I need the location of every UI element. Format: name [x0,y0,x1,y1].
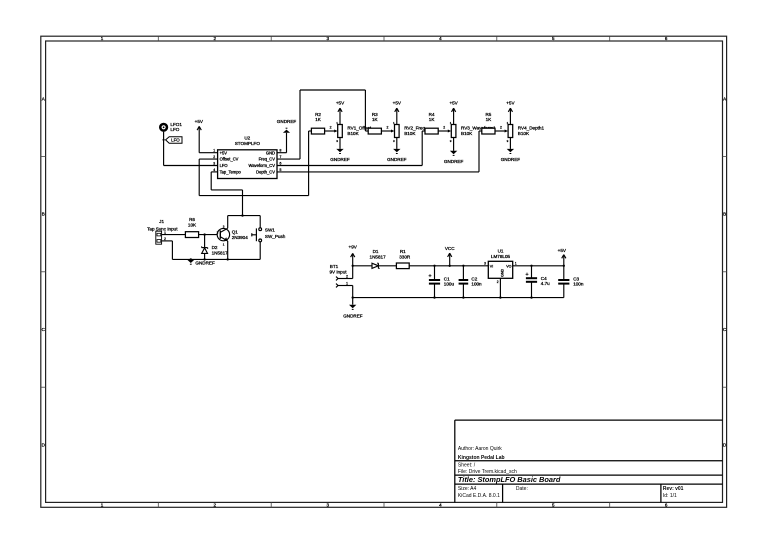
svg-text:GNDREF: GNDREF [343,313,363,318]
ground GNDREF (above U2, inverted) [277,119,297,133]
connector BT1 9V Input [329,264,348,287]
svg-text:STOMPLFO: STOMPLFO [235,141,261,146]
wire tap ground rail [172,258,260,260]
node junction gnd rail left [352,296,354,298]
svg-text:B10K: B10K [461,131,473,136]
svg-text:3: 3 [213,161,215,165]
power +5V (output) [558,248,567,266]
diode D1 1N5817 [370,249,387,268]
svg-text:+: + [525,272,528,278]
svg-text:D: D [42,443,46,448]
ground GNDREF (RV4) [501,149,521,162]
power +5V (U2) [195,119,204,153]
svg-text:Author: Aaron Quirk: Author: Aaron Quirk [458,446,502,452]
LED testpoint LFO1 [159,122,182,132]
svg-text:2: 2 [213,155,215,159]
svg-text:6: 6 [279,161,281,165]
frame row ticks right [723,156,727,387]
node wiper arrow RV1 [330,126,338,133]
svg-text:3: 3 [484,262,486,266]
wire U2 pin5 Depth_CV route [277,131,482,172]
svg-text:1N5817: 1N5817 [370,255,387,260]
svg-text:Depth_CV: Depth_CV [256,170,275,175]
power +5V (RV1) [336,101,345,125]
connector J1 Tap Sync Input [147,219,178,244]
node junction VCC [449,265,451,267]
svg-text:1: 1 [346,281,348,285]
svg-text:4.7u: 4.7u [541,281,550,286]
diode D2 1N5817 [202,245,229,259]
node junction gnd rail Q1 [227,258,229,260]
svg-text:BT1: BT1 [330,264,339,269]
resistor R4 [425,112,438,134]
wire J1 pin1 to R6 [162,234,186,236]
capacitor C1 100u [428,266,454,298]
svg-text:1: 1 [223,242,225,246]
power +5V (RV4) [506,101,515,125]
wire Q1 emitter down [227,241,229,259]
svg-text:U1: U1 [498,248,504,253]
svg-text:GNDREF: GNDREF [195,260,215,265]
wire R6 to Q1 base [199,234,221,236]
node junction tap rail [241,214,243,216]
node wiper arrow RV4 [500,126,508,133]
node wiper arrow RV3 [443,126,451,133]
ground GNDREF (RV2) [387,149,407,162]
svg-text:+5V: +5V [393,101,402,106]
frame column ticks bottom [158,502,609,507]
node junction gnd rail D2 [203,258,205,260]
svg-text:A: A [723,96,726,101]
wire BT1 pin1 to gnd [338,286,353,298]
svg-text:2: 2 [346,274,348,278]
wire LED to pin3 [164,132,218,166]
svg-text:4: 4 [213,168,215,172]
svg-text:1K: 1K [429,117,436,122]
svg-text:J1: J1 [159,219,164,224]
wire RV2 bottom [396,138,398,149]
ground GNDREF (RV3) [444,151,464,164]
svg-text:+5V: +5V [336,101,345,106]
svg-text:Q1: Q1 [232,230,239,235]
frame row ticks left [41,156,46,387]
svg-text:Id: 1/1: Id: 1/1 [663,493,677,499]
svg-text:+5V: +5V [449,101,458,106]
node junction gnd rail sym [190,258,192,260]
svg-text:GND: GND [501,269,505,277]
wire D1 to R1 [378,265,396,267]
svg-text:B10K: B10K [518,131,530,136]
node junction C1 top [433,265,435,267]
wire RV1 bottom [339,138,341,149]
wire Q1 collector up [227,216,229,229]
power +5V (RV3) [449,101,458,125]
svg-text:Offset_CV: Offset_CV [220,157,239,162]
svg-text:1K: 1K [372,117,379,122]
transistor Q1 2N3904 [217,224,249,246]
power +5V (RV2) [393,101,402,125]
svg-text:R1: R1 [400,249,406,254]
svg-text:2: 2 [330,126,332,130]
svg-text:+5V: +5V [558,248,567,253]
svg-text:VCC: VCC [445,246,455,251]
svg-text:Kingston Pedal Lab: Kingston Pedal Lab [458,455,505,461]
frame column ticks top [158,36,609,41]
frame column numbers [101,36,668,507]
sheet outer frame [41,36,727,507]
svg-text:Tap_Tempo: Tap_Tempo [220,170,242,175]
svg-text:C3: C3 [573,276,579,281]
wire U2 pin6 Waveform_CV route [277,131,425,166]
svg-text:2: 2 [443,126,445,130]
wire RV4 bottom [509,138,511,149]
wire R1 to U1 [409,265,488,267]
svg-text:+9V: +9V [349,245,358,250]
svg-text:Tap Sync Input: Tap Sync Input [147,227,178,232]
svg-text:Rev: v01: Rev: v01 [663,486,684,492]
node junction +9V rail [352,265,354,267]
svg-text:SW1: SW1 [265,227,275,232]
svg-text:C4: C4 [541,276,547,281]
wire tap rail top [228,215,261,217]
capacitor C4 4.7u [525,266,550,298]
wire U2 pin7 Freq_CV route [277,90,368,159]
svg-text:LFO: LFO [220,163,228,168]
svg-text:100n: 100n [573,282,584,287]
svg-text:C2: C2 [471,276,477,281]
svg-text:LFO: LFO [170,127,179,132]
node junction C3 top [563,265,565,267]
node junction C4 top [530,265,532,267]
svg-text:A: A [42,96,45,101]
svg-text:Freq_CV: Freq_CV [259,157,276,162]
svg-text:GNDREF: GNDREF [277,119,297,124]
resistor R6 [185,217,198,237]
svg-text:U2: U2 [244,136,250,141]
svg-text:D2: D2 [212,245,218,250]
sheet inner frame [46,41,723,502]
svg-text:GNDREF: GNDREF [444,159,464,164]
svg-text:B: B [42,212,45,217]
capacitor C3 100n [558,266,584,298]
svg-text:GNDREF: GNDREF [501,157,521,162]
wire BT1 pin2 to +9V [338,266,353,279]
svg-text:3: 3 [223,224,225,228]
svg-text:B10K: B10K [404,131,416,136]
svg-text:+5V: +5V [220,150,228,155]
svg-text:330R: 330R [399,255,411,260]
global label LFO [163,137,183,143]
IC U2 StompLFO [213,136,281,179]
switch SW1 SW_Push [252,216,286,260]
wire R3 to RV2 wiper [381,130,391,132]
svg-text:5: 5 [279,168,281,172]
svg-text:+: + [428,274,431,280]
svg-text:2: 2 [386,126,388,130]
svg-text:Size: A4: Size: A4 [458,486,477,492]
svg-text:8: 8 [279,149,281,153]
svg-text:Title: StompLFO Basic Board: Title: StompLFO Basic Board [458,475,561,484]
node junction U1 gnd [499,296,501,298]
svg-text:2N3904: 2N3904 [232,235,249,240]
wire power gnd rail [353,297,564,299]
node junction C4 bottom [530,296,532,298]
node junction C1 bottom [433,296,435,298]
svg-text:7: 7 [279,155,281,159]
potentiometer RV2_Freq [393,121,425,143]
node junction C2 top [462,265,464,267]
svg-text:Waveform_CV: Waveform_CV [249,163,276,168]
resistor R2 [311,112,324,134]
wire U2 pin4 Tap_Tempo route [211,172,242,216]
potentiometer RV1_Offset [336,121,372,143]
node junction R6/D2 [203,233,205,235]
svg-text:2: 2 [500,126,502,130]
resistor R3 [368,112,381,134]
svg-text:100u: 100u [444,282,455,287]
ground GNDREF (RV1) [330,149,350,162]
ground GNDREF (tap) [187,260,215,266]
svg-text:B10K: B10K [347,131,359,136]
svg-text:VO: VO [506,264,511,268]
svg-text:GNDREF: GNDREF [387,157,407,162]
wire node to D2 [204,235,206,248]
wire RV3 bottom [453,138,455,151]
node wiper arrow RV2 [386,126,394,133]
wire J1 pin2 to ground rail [162,241,173,260]
power +9V [349,245,358,266]
frame row letters [42,96,727,447]
resistor R5 [482,112,495,134]
ground GNDREF (power) [343,298,363,319]
wire +5V to U2 pin1 [199,152,217,154]
svg-text:100n: 100n [471,282,482,287]
svg-text:2: 2 [497,280,499,284]
svg-text:Sheet: /: Sheet: / [458,463,476,469]
node junction C2 bottom [462,296,464,298]
svg-text:3: 3 [336,139,338,143]
svg-text:LM78L05: LM78L05 [491,254,511,259]
svg-text:KiCad E.D.A. 8.0.1: KiCad E.D.A. 8.0.1 [458,493,500,499]
svg-text:D1: D1 [373,249,379,254]
svg-text:1K: 1K [315,117,322,122]
svg-text:9V Input: 9V Input [329,270,347,275]
svg-text:1: 1 [213,149,215,153]
svg-text:1N5817: 1N5817 [212,250,229,255]
wire U2 pin2 Offset_CV route [199,131,311,196]
potentiometer RV3_Waveform1 [450,121,496,143]
svg-text:GND: GND [266,150,275,155]
svg-text:Date:: Date: [516,486,528,492]
wire U2 pin8 GND to GNDREF [277,133,287,153]
wire R2 to RV1 wiper [325,130,335,132]
capacitor C2 100n [459,266,482,298]
wire +9V rail to D1 [353,265,372,267]
svg-text:C1: C1 [444,276,450,281]
svg-text:1: 1 [515,262,517,266]
svg-text:VI: VI [490,264,493,268]
svg-text:3: 3 [393,139,395,143]
svg-text:C: C [42,327,46,332]
svg-text:B: B [723,212,726,217]
title block outline [455,419,723,421]
wire U1 out rail [513,265,564,267]
svg-text:1K: 1K [486,117,493,122]
wire U1 pin2 to gnd rail [499,278,501,297]
svg-text:3: 3 [450,139,452,143]
wire R5 to RV4 wiper [495,130,505,132]
svg-text:LFO: LFO [171,138,180,143]
svg-text:3: 3 [507,139,509,143]
svg-text:SW_Push: SW_Push [265,234,286,239]
svg-text:+5V: +5V [506,101,515,106]
svg-text:10K: 10K [188,222,197,227]
potentiometer RV4_Depth1 [507,121,545,143]
power VCC [445,246,455,266]
svg-text:GNDREF: GNDREF [330,157,350,162]
svg-text:+5V: +5V [195,119,204,124]
wire R4 to RV3 wiper [438,130,448,132]
resistor R1 [396,249,410,268]
regulator U1 LM78L05 [484,248,517,283]
